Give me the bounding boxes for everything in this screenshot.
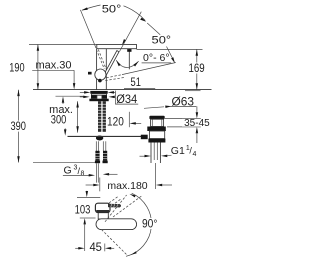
- threaded shank right bar: [103, 101, 106, 132]
- tangent leader from arc to second 50 deg label: [147, 23, 160, 35]
- svg-text:51: 51: [131, 77, 141, 89]
- swivel dashed radius upper b: [113, 196, 142, 217]
- bottom view neck: [98, 212, 108, 220]
- arrowhead on line C below pointing to lever: [122, 39, 126, 45]
- dim max.180 right arrow: [156, 184, 162, 187]
- dim 120 arrow: [133, 122, 141, 124]
- tilt wedge line 1 (dashed then solid to 0-6 arrow): [106, 75, 122, 78]
- threaded shank left bar: [98, 101, 101, 132]
- G 1 1/4 arrows at pipe: [140, 155, 146, 157]
- waste flange band: [147, 127, 166, 132]
- swivel dashed radius upper a: [105, 195, 127, 222]
- drain pipe inner lines: [153, 143, 155, 161]
- deck line: [33, 89, 212, 91]
- hose connector left: [95, 151, 99, 161]
- waste body cup: [149, 131, 164, 139]
- dim max.180 left extension line: [99, 178, 101, 192]
- rod ferrule: [141, 135, 148, 140]
- faucet body column left edge: [96, 49, 98, 90]
- dim 390 bottom extension line at hose ends: [33, 162, 95, 164]
- svg-text:max.180: max.180: [107, 180, 147, 192]
- waste knob top plate: [149, 116, 164, 119]
- hose connector right: [103, 151, 107, 161]
- linkage rod: [68, 135, 142, 137]
- tilt wedge line 2 dashed: [105, 77, 124, 80]
- dim 103 top extension line: [77, 196, 100, 198]
- label 90 deg: [141, 218, 159, 229]
- swivel 90 deg arc: [126, 193, 151, 256]
- hose right lines: [102, 141, 104, 151]
- side nub at ball level: [88, 72, 92, 75]
- svg-text:390: 390: [10, 121, 26, 133]
- faucet spout bar: [97, 45, 137, 49]
- bottom view body bottom band: [96, 210, 109, 212]
- locknut left half: [91, 95, 97, 99]
- locknut right half: [102, 95, 107, 99]
- svg-text:4: 4: [193, 151, 197, 158]
- dim arrows for mounting hole upper pair: [80, 91, 85, 93]
- svg-text:0°- 6°: 0°- 6°: [143, 52, 170, 64]
- max.30 under-deck up arrow: [62, 96, 65, 102]
- dim 45 right extension line: [104, 244, 106, 252]
- svg-text:35-45: 35-45: [184, 118, 210, 129]
- deck extension for 169: [185, 90, 201, 92]
- svg-text:120: 120: [107, 117, 124, 129]
- handle travel small arc with arrowheads: [116, 60, 138, 67]
- svg-text:max.30: max.30: [35, 60, 71, 72]
- aerator stub below spout: [128, 49, 130, 70]
- dim max.180 left arrow: [86, 184, 94, 186]
- svg-text:8: 8: [81, 171, 85, 178]
- set screw dot: [98, 79, 102, 83]
- svg-text:190: 190: [9, 63, 24, 75]
- drain pop-up waste: Ø63 leader: [144, 107, 164, 109]
- dim 190 extension line at spout top: [29, 44, 97, 46]
- bottom view dashed lever cap: [109, 197, 118, 203]
- dim 103 bottom up arrow and shared vertical line to dim 45: [83, 218, 86, 224]
- svg-text:300: 300: [51, 115, 67, 127]
- dim 35-45 extension lines: [165, 118, 201, 120]
- svg-text:50°: 50°: [102, 4, 122, 16]
- top 50 deg arc left piece with arrowhead: [82, 5, 101, 10]
- dim 169 vertical line with arrows: [196, 49, 198, 62]
- lever handle solid: [103, 51, 119, 77]
- dim 120 extension line (aerator): [128, 112, 130, 127]
- svg-text:169: 169: [189, 63, 205, 75]
- bottom view spout pill: [96, 219, 137, 230]
- label 35-45: [182, 119, 212, 127]
- hose centre extension lines below connectors: [95, 163, 97, 182]
- bottom view lever dark bar: [108, 204, 120, 207]
- svg-text:G: G: [64, 164, 72, 176]
- dim 390 vertical line with arrows: [18, 90, 20, 121]
- base collar white band: [92, 94, 107, 96]
- dim 190 vertical line with arrows: [37, 45, 39, 90]
- dim 103 bottom extension line: [80, 217, 96, 219]
- dim 169 top extension line: [137, 48, 203, 50]
- dim arrows lower pair: [80, 96, 84, 98]
- drain pipe outer lines: [150, 143, 152, 164]
- bottom view body: [95, 203, 110, 212]
- stray down arrow to linkage rod: [64, 128, 66, 130]
- top 50 deg arc right piece with arrowhead: [124, 6, 146, 21]
- dim 35-45 arrows outside: [196, 106, 198, 113]
- waste bottom band: [148, 139, 165, 143]
- dim Ø34 leader vertical: [114, 91, 116, 105]
- washer band: [89, 99, 108, 102]
- faucet body column right edge: [105, 49, 107, 90]
- svg-text:G1: G1: [171, 145, 185, 157]
- lever dashed alternate position: [96, 50, 104, 70]
- waste knob body: [151, 119, 164, 126]
- G 3/8 underline and arrow to left hose: [63, 174, 90, 176]
- deck bottom line: [56, 95, 84, 97]
- svg-text:103: 103: [75, 205, 91, 217]
- svg-text:50°: 50°: [152, 34, 172, 46]
- svg-text:90°: 90°: [142, 218, 158, 230]
- drain pipe centerline extension: [155, 163, 157, 189]
- pop-up rod joint: [96, 136, 103, 141]
- dim 45 arrows outside: [75, 247, 79, 249]
- G 3/8 counter arrow at right hose: [103, 173, 109, 176]
- swivel dashed radius lower: [102, 230, 127, 255]
- shank thread stripes: [98, 103, 106, 105]
- dim 103 top down arrow: [86, 191, 88, 192]
- leader from second 50 deg to lever axis: [167, 47, 174, 61]
- dim max.300 vertical line with arrows: [77, 101, 79, 132]
- ball joint: [95, 69, 106, 80]
- base flange on deck: [90, 91, 107, 94]
- hose left lines: [95, 141, 97, 151]
- angle line A: dashed lever position extended (left leg of top 50 deg): [80, 10, 96, 48]
- svg-text:45: 45: [89, 242, 102, 254]
- max.30 elbow leader with down arrow to deck: [73, 70, 75, 84]
- angle line C: solid lever extended (right leg of top 50 deg): [120, 12, 142, 52]
